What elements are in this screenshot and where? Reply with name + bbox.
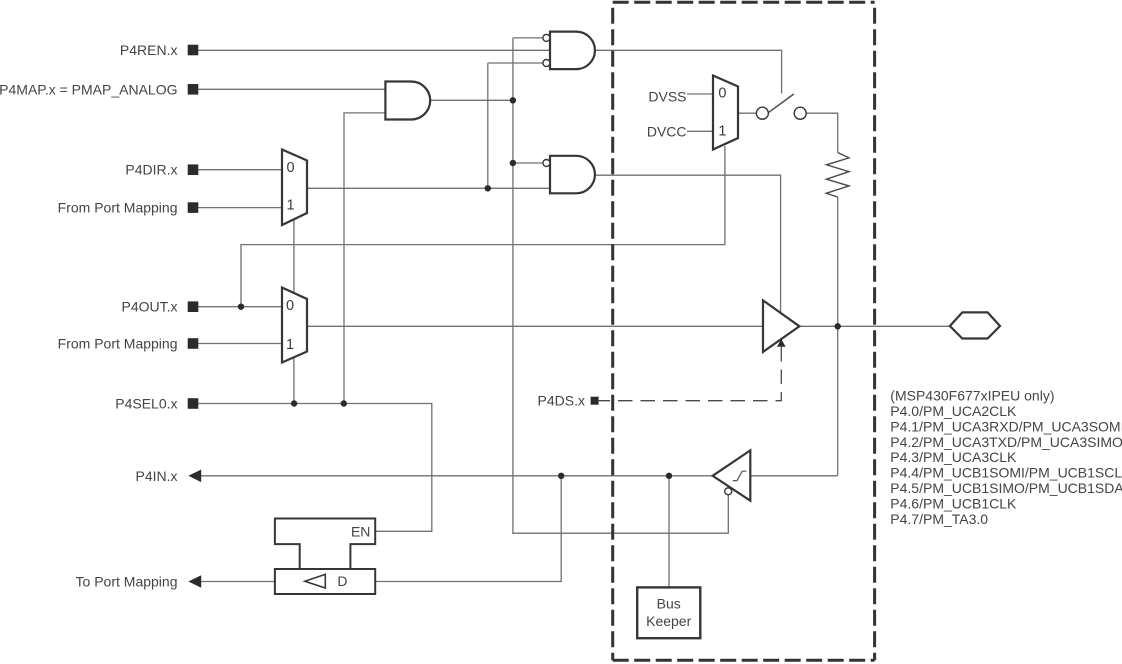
svg-text:P4.3/PM_UCA3CLK: P4.3/PM_UCA3CLK xyxy=(890,449,1017,465)
wire U1 bottom bubble input xyxy=(488,62,543,64)
wire P4OUT.x to mux M2 input 0 xyxy=(198,306,282,308)
svg-text:P4.2/PM_UCA3TXD/PM_UCA3SIMO: P4.2/PM_UCA3TXD/PM_UCA3SIMO xyxy=(890,434,1122,450)
wire M1 output to NAND U2 bottom input xyxy=(307,187,550,189)
svg-text:P4.7/PM_TA3.0: P4.7/PM_TA3.0 xyxy=(890,511,988,527)
output driver U4 xyxy=(763,300,799,352)
wire U2 output to driver enable xyxy=(595,175,781,313)
input squares xyxy=(188,45,599,409)
svg-text:Keeper: Keeper xyxy=(646,613,691,629)
svg-text:P4.1/PM_UCA3RXD/PM_UCA3SOMI: P4.1/PM_UCA3RXD/PM_UCA3SOMI xyxy=(890,418,1122,434)
resistor R1 (pullup/pulldown) xyxy=(826,153,849,198)
mux M2 (P4OUT / port map) xyxy=(282,288,307,363)
node P4MAP.x square xyxy=(188,84,199,95)
wire U2 top bubble input xyxy=(513,162,543,164)
node P4DIR.x square xyxy=(188,164,199,175)
svg-text:Bus: Bus xyxy=(657,596,681,612)
node P4IN.x arrow xyxy=(188,470,201,483)
svg-text:P4DIR.x: P4DIR.x xyxy=(125,162,177,178)
dashed module boundary xyxy=(613,2,875,660)
mux M1 (P4DIR / port map) xyxy=(282,150,307,226)
svg-text:P4DS.x: P4DS.x xyxy=(538,393,585,409)
wire node A vertical (analog disable) xyxy=(513,38,728,533)
svg-text:P4SEL0.x: P4SEL0.x xyxy=(115,396,177,412)
node P4DS.x square xyxy=(591,397,599,405)
svg-text:From Port Mapping: From Port Mapping xyxy=(58,200,178,216)
node P4SEL0.x square xyxy=(188,398,199,409)
svg-text:D: D xyxy=(337,573,347,589)
svg-text:To Port Mapping: To Port Mapping xyxy=(76,574,178,590)
wire U3 bottom input from P4SEL0 xyxy=(344,113,385,404)
svg-text:DVSS: DVSS xyxy=(648,88,686,104)
svg-text:(MSP430F677xIPEU only): (MSP430F677xIPEU only) xyxy=(890,387,1054,403)
wire latch D output to To Port Mapping xyxy=(200,581,275,583)
node To Port Mapping arrow xyxy=(188,575,201,588)
wire driver output to pad xyxy=(799,325,950,327)
wire M2 output to driver input xyxy=(307,325,763,327)
U5 enable bubble xyxy=(725,488,732,495)
svg-text:P4REN.x: P4REN.x xyxy=(120,42,178,58)
wire From Port Mapping to mux M1 input 1 xyxy=(198,207,282,209)
svg-text:P4OUT.x: P4OUT.x xyxy=(121,299,177,315)
wire pad node to bus keeper xyxy=(668,476,670,588)
pin function list text xyxy=(890,387,1122,527)
switch S1 contacts xyxy=(756,107,806,119)
latch EN block xyxy=(275,519,375,570)
wire schmitt out to latch D input xyxy=(375,476,561,582)
wire switch to resistor R1 xyxy=(806,113,838,152)
svg-text:1: 1 xyxy=(286,198,294,214)
wire U1 top bubble input xyxy=(513,37,543,39)
P4DS.x dashed control wire xyxy=(599,347,782,401)
svg-text:From Port Mapping: From Port Mapping xyxy=(58,336,178,352)
switch S1 lever xyxy=(769,94,794,112)
svg-text:0: 0 xyxy=(286,298,294,314)
wire P4MAP.x to AND U3 top input xyxy=(198,88,385,90)
wire resistor R1 to pad node xyxy=(837,197,839,476)
wire From Port Mapping to mux M2 input 1 xyxy=(198,343,282,345)
svg-text:P4.0/PM_UCA2CLK: P4.0/PM_UCA2CLK xyxy=(890,403,1017,419)
svg-text:1: 1 xyxy=(286,337,294,353)
U5 hysteresis symbol xyxy=(733,471,747,480)
node From Port Mapping square (DIR) xyxy=(188,202,199,213)
mux M3 (DVSS / DVCC pull select) xyxy=(713,76,738,150)
P4DS arrowhead into driver xyxy=(777,339,786,347)
wire schmitt output to P4IN.x xyxy=(200,475,713,477)
U1 input bubbles xyxy=(543,34,550,66)
NAND gate U1 (REN control) xyxy=(550,32,595,70)
latch D block xyxy=(275,569,375,594)
wire P4SEL0.x to latch EN xyxy=(198,404,432,532)
node P4REN.x square xyxy=(188,45,199,56)
schmitt trigger input buffer U5 xyxy=(713,450,751,500)
U2 input bubble xyxy=(543,160,550,167)
svg-text:0: 0 xyxy=(286,160,294,176)
pad hexagon xyxy=(950,312,1000,338)
wire P4REN.x to NAND U1 middle input xyxy=(198,49,550,51)
wire pad to schmitt input xyxy=(750,475,837,477)
bus keeper block xyxy=(637,587,700,638)
wire DVCC to mux M3 input 1 xyxy=(687,130,713,132)
svg-text:DVCC: DVCC xyxy=(647,123,687,139)
svg-text:P4.4/PM_UCB1SOMI/PM_UCB1SCL: P4.4/PM_UCB1SOMI/PM_UCB1SCL xyxy=(890,465,1122,481)
svg-text:P4.5/PM_UCB1SIMO/PM_UCB1SDA: P4.5/PM_UCB1SIMO/PM_UCB1SDA xyxy=(890,480,1122,496)
node From Port Mapping square (OUT) xyxy=(188,338,199,349)
svg-text:P4MAP.x = PMAP_ANALOG: P4MAP.x = PMAP_ANALOG xyxy=(0,81,178,97)
svg-text:EN: EN xyxy=(351,523,370,539)
node P4OUT.x square xyxy=(188,301,199,312)
NAND gate U2 (DIR control) xyxy=(550,156,595,194)
svg-text:0: 0 xyxy=(718,86,726,102)
wire node B vertical U1 input from M1 output xyxy=(487,63,489,188)
svg-text:P4IN.x: P4IN.x xyxy=(135,468,177,484)
latch D clock triangle xyxy=(305,574,326,588)
wire DVSS to mux M3 input 0 xyxy=(687,93,713,95)
wire U1 output to switch control xyxy=(595,50,782,93)
svg-text:1: 1 xyxy=(718,124,726,140)
wire M3 output to switch xyxy=(738,112,757,114)
AND gate U3 (PMAP_ANALOG) xyxy=(385,82,430,120)
svg-text:P4.6/PM_UCB1CLK: P4.6/PM_UCB1CLK xyxy=(890,496,1017,512)
wire M1/M2 select to P4SEL0 xyxy=(293,218,295,404)
wire P4OUT branch to pull mux select xyxy=(241,146,725,307)
wire P4DIR.x to mux M1 input 0 xyxy=(198,169,282,171)
wire U3 output to node A vertical xyxy=(430,99,513,101)
